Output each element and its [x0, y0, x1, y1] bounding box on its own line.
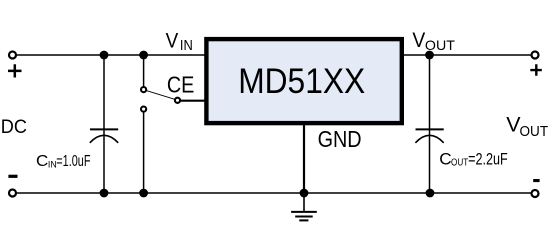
capacitor C_OUT	[415, 129, 443, 142]
wire CE pin	[180, 100, 206, 102]
svg-text:MD51XX: MD51XX	[238, 61, 365, 101]
junction top rail / CIN	[100, 51, 109, 60]
minus sign at output	[533, 179, 539, 182]
terminal VOUT - (bottom right)	[532, 190, 539, 197]
terminal DC - (bottom left)	[9, 190, 16, 197]
ground symbol	[291, 193, 317, 220]
junction bottom rail / COUT	[426, 189, 435, 198]
wire switch upper (top rail to switch pole)	[143, 55, 145, 87]
node label VOUT (output, bottom right)	[506, 114, 548, 141]
switch S1 (CE select)	[141, 87, 180, 112]
junction ground rail / GND pin	[300, 189, 309, 198]
terminal DC + (top left)	[9, 52, 16, 59]
wire bottom ground rail	[16, 192, 532, 194]
svg-text:C: C	[36, 153, 48, 170]
wire switch lower (switch throw to ground rail)	[143, 112, 145, 193]
svg-text:OUT: OUT	[451, 158, 468, 169]
plus sign at DC input	[8, 64, 22, 77]
terminal VOUT + (top right)	[532, 52, 539, 59]
IC U1 MD51XX body	[206, 39, 401, 123]
svg-text:=2.2uF: =2.2uF	[468, 151, 508, 169]
svg-text:OUT: OUT	[425, 37, 455, 53]
svg-text:DC: DC	[1, 117, 27, 138]
junction top rail / switch	[139, 51, 148, 60]
pin label VOUT (top)	[412, 28, 455, 53]
svg-text:GND: GND	[318, 126, 362, 152]
svg-text:V: V	[412, 28, 425, 52]
svg-text:V: V	[506, 114, 520, 137]
svg-text:IN: IN	[180, 38, 193, 54]
value label CIN=1.0uF	[36, 153, 91, 171]
capacitor C_IN	[90, 129, 118, 142]
value label COUT=2.2uF	[439, 151, 507, 169]
junction top rail / COUT	[425, 51, 434, 60]
wire GND pin (IC to ground rail)	[303, 124, 305, 193]
svg-text:=1.0uF: =1.0uF	[56, 153, 90, 170]
wire COUT (top rail through capacitor to ground rail)	[429, 55, 431, 193]
minus sign at DC input	[8, 175, 17, 178]
wire CIN (top rail through capacitor to ground rail)	[103, 55, 105, 193]
wire top rail left (DC+ terminal to VIN pin)	[16, 54, 207, 56]
svg-text:OUT: OUT	[520, 124, 549, 140]
junction bottom rail / CIN	[100, 189, 109, 198]
plus sign at output	[530, 64, 542, 76]
wire top rail right (VOUT pin to output + terminal)	[404, 54, 532, 56]
svg-text:V: V	[166, 28, 179, 52]
pin label VIN	[166, 28, 193, 53]
svg-text:CE: CE	[167, 72, 195, 98]
junction bottom rail / switch	[139, 189, 148, 198]
